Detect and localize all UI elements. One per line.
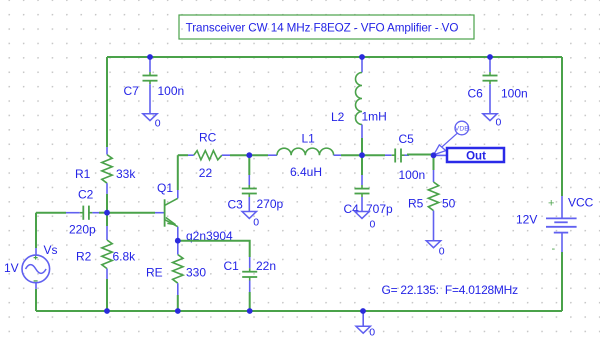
ground C7 — [143, 114, 161, 130]
ground C4 — [355, 212, 376, 231]
wire RC to node — [230, 154, 249, 156]
resistor R5 — [408, 155, 456, 241]
svg-text:100n: 100n — [158, 84, 185, 98]
ground R5 — [426, 241, 445, 258]
capacitor C2 — [66, 188, 99, 237]
wire right rail lower — [561, 252, 563, 311]
svg-text:6.8k: 6.8k — [113, 250, 137, 264]
capacitor C4 — [344, 155, 394, 216]
svg-text:0: 0 — [439, 246, 445, 258]
svg-text:0: 0 — [370, 219, 376, 231]
wire Vs to C2 — [36, 212, 66, 214]
svg-text:Vs: Vs — [44, 243, 58, 257]
svg-text:C7: C7 — [124, 84, 140, 98]
ground C3 — [242, 212, 259, 229]
wire base row — [107, 212, 155, 214]
svg-text:220p: 220p — [69, 223, 96, 237]
svg-text:100n: 100n — [399, 168, 426, 182]
svg-text:100n: 100n — [501, 87, 528, 101]
svg-text:R2: R2 — [76, 250, 92, 264]
svg-text:270p: 270p — [257, 197, 284, 211]
wire left rail mid — [106, 194, 108, 213]
svg-text:22: 22 — [199, 166, 213, 180]
junction bottom R2 — [104, 308, 110, 314]
wire L2 bottom — [361, 138, 363, 155]
wire Vs bottom — [35, 289, 37, 311]
svg-text:22n: 22n — [256, 259, 276, 273]
wire Vs top — [35, 213, 37, 248]
wire C2 to junction — [99, 212, 107, 214]
source Vs — [4, 243, 58, 289]
svg-text:RE: RE — [146, 266, 163, 280]
junction bottom ground — [360, 308, 366, 314]
wire left rail upper — [106, 57, 108, 147]
wire C1 bottom — [249, 292, 251, 311]
svg-text:6.4uH: 6.4uH — [290, 165, 322, 179]
svg-text:0: 0 — [253, 217, 259, 229]
wire left rail lower — [106, 279, 108, 311]
svg-text:0: 0 — [496, 117, 502, 129]
svg-text:R1: R1 — [75, 167, 91, 181]
wire bottom rail — [36, 310, 562, 312]
title box — [179, 15, 474, 39]
junction emitter — [175, 238, 181, 244]
junction base — [104, 210, 110, 216]
junction out node — [431, 152, 437, 158]
svg-text:Transceiver CW 14 MHz F8EOZ -: Transceiver CW 14 MHz F8EOZ - VFO Amplif… — [186, 22, 459, 35]
wire C5 to out node — [407, 154, 434, 156]
resistor R1 — [75, 147, 136, 194]
junction C7 — [147, 54, 153, 60]
svg-text:12V: 12V — [516, 213, 537, 227]
svg-text:C5: C5 — [399, 132, 415, 146]
transistor Q1 — [155, 181, 233, 243]
inductor L2 — [331, 57, 387, 138]
resistor RE — [146, 241, 206, 295]
wire top rail — [107, 56, 562, 58]
junction L2 C4 — [359, 152, 365, 158]
svg-text:VCC: VCC — [568, 196, 594, 210]
svg-text:50: 50 — [442, 197, 456, 211]
svg-text:330: 330 — [186, 266, 206, 280]
wire right rail upper — [561, 57, 563, 196]
svg-text:G= 22.135: F=4.0128MHz: G= 22.135: F=4.0128MHz — [382, 283, 519, 297]
svg-text:VDB: VDB — [455, 125, 469, 132]
svg-text:C2: C2 — [78, 188, 94, 202]
svg-text:R5: R5 — [408, 197, 424, 211]
svg-text:Out: Out — [466, 151, 486, 163]
svg-text:0: 0 — [155, 118, 161, 130]
svg-text:707p: 707p — [366, 202, 393, 216]
capacitor C1 — [224, 257, 277, 292]
svg-text:L1: L1 — [302, 132, 316, 146]
junction C6 — [487, 54, 493, 60]
svg-text:Q1: Q1 — [157, 181, 173, 195]
junction RC C3 — [246, 152, 252, 158]
probe vdb — [434, 121, 470, 155]
svg-text:1mH: 1mH — [362, 110, 387, 124]
out port box — [435, 148, 504, 163]
junction bottom RE — [175, 308, 181, 314]
capacitor C5 — [362, 132, 425, 182]
svg-text:+: + — [548, 198, 554, 210]
svg-text:C3: C3 — [228, 198, 244, 212]
svg-text:1V: 1V — [4, 261, 19, 275]
svg-text:33k: 33k — [116, 167, 136, 181]
junction L2 top — [359, 54, 365, 60]
capacitor C3 — [228, 155, 284, 211]
wire collector — [177, 155, 179, 190]
svg-text:RC: RC — [199, 131, 217, 145]
capacitor C7 — [124, 57, 185, 114]
inductor L1 — [249, 132, 341, 180]
battery VCC 12V — [516, 196, 594, 256]
capacitor C6 — [468, 57, 528, 114]
wire RE bottom — [177, 295, 179, 311]
wire emitter row — [178, 241, 250, 257]
junction bottom C1 — [247, 308, 253, 314]
svg-text:C6: C6 — [468, 87, 484, 101]
ground bottom rail — [356, 311, 375, 339]
svg-text:-: - — [552, 243, 556, 255]
svg-text:L2: L2 — [331, 110, 345, 124]
wire L1 to L2 node — [341, 154, 362, 156]
resistor RC — [178, 131, 230, 181]
svg-text:0: 0 — [369, 327, 375, 339]
ground C6 — [483, 114, 502, 129]
resistor R2 — [76, 213, 136, 279]
svg-text:C1: C1 — [224, 259, 240, 273]
